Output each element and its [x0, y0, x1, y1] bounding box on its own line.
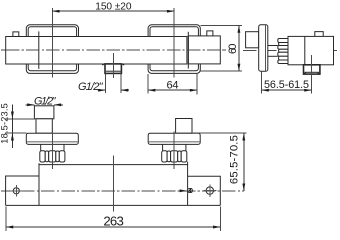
neck 2	[163, 144, 186, 150]
centerline axis 1	[51, 131, 53, 170]
outlet extension left	[104, 73, 106, 93]
bar plan bottom	[6, 204, 221, 206]
button 1 circle	[13, 188, 19, 194]
pipe 2	[176, 119, 192, 134]
esc2 ext left	[147, 74, 149, 94]
bar plan top	[39, 164, 188, 166]
knob	[246, 32, 259, 48]
escutcheon left outer	[26, 25, 78, 74]
centerline axis 2	[173, 132, 175, 170]
dim 60 : line	[238, 26, 240, 72]
centerline re-draw over bar	[6, 49, 225, 51]
svg-text:60: 60	[227, 44, 239, 55]
outlet chamfer right	[317, 73, 319, 74]
escutcheon left inner	[28, 27, 76, 71]
outlet chamfer tick left	[102, 64, 105, 65]
dim 60 : ext top	[201, 25, 243, 27]
outlet chamfer tick right	[122, 64, 125, 65]
svg-text:56.5-61.5: 56.5-61.5	[264, 79, 309, 91]
neck 1	[41, 144, 64, 150]
dim 56.5-61.5 ext right	[310, 80, 312, 94]
plate 1	[26, 133, 78, 144]
svg-text:18.5-23.5: 18.5-23.5	[0, 103, 9, 144]
wall plate	[259, 25, 268, 71]
outlet axis	[311, 55, 313, 80]
bar body	[6, 37, 187, 65]
outlet axis plan	[112, 156, 114, 212]
stem bottom	[268, 55, 278, 57]
svg-text:G1/2": G1/2"	[78, 81, 104, 93]
joint ring right	[187, 32, 189, 69]
svg-text:150 ±20: 150 ±20	[95, 1, 132, 12]
outlet nut side	[304, 65, 320, 74]
64 dim line	[148, 89, 197, 91]
dim 18.5-23.5 arrow top	[11, 111, 13, 119]
plate 2 inner line	[149, 141, 200, 143]
dim 263 ext left	[5, 207, 7, 232]
dim G1/2 plan arrow left	[26, 104, 35, 106]
dim 18.5-23.5 arrow bottom	[11, 133, 13, 141]
svg-text:263: 263	[103, 213, 124, 228]
body bump top	[315, 32, 323, 37]
dim 150±20 : extension/centerline left	[51, 8, 53, 78]
dim 18.5-23.5 line	[11, 105, 13, 149]
centerline	[243, 49, 339, 51]
wall plate inner line	[265, 25, 267, 71]
outlet nut	[105, 64, 121, 74]
outlet nut inner line	[106, 70, 121, 72]
button 2 cross	[204, 184, 217, 197]
dim 65.5-70.5 ext top	[192, 132, 247, 134]
main horizontal centerline	[1, 190, 244, 192]
button 1 cross	[11, 185, 23, 196]
cartridge ribs	[278, 39, 289, 64]
dim 263 ext right	[219, 207, 221, 232]
svg-text:30: 30	[188, 188, 193, 195]
plate 2	[148, 133, 200, 144]
plate 1 inner line	[27, 141, 78, 143]
escutcheon right inner	[150, 27, 198, 71]
bar plan left vertical	[38, 163, 40, 205]
dim 56.5-61.5 line	[262, 89, 312, 91]
right joint vertical	[187, 162, 189, 206]
svg-text:G1/2": G1/2"	[34, 96, 57, 108]
right end body	[188, 36, 220, 64]
G1/2 dim arrow right	[121, 89, 129, 91]
ring 2	[162, 151, 187, 162]
button 2 circle	[206, 187, 213, 194]
outlet extension right	[120, 73, 122, 93]
dim 18.5-23.5 ext top	[5, 118, 36, 120]
dim 60 : ext bottom	[201, 70, 243, 72]
right cap plan	[188, 176, 221, 205]
handle joint ring left	[38, 31, 40, 69]
svg-text:64: 64	[167, 79, 179, 91]
connector 1	[36, 119, 52, 133]
left handle plan	[6, 176, 39, 205]
outlet nut inner line	[304, 71, 319, 73]
dim 56.5-61.5 ext left	[261, 72, 263, 94]
body block	[288, 36, 334, 64]
dim 150±20 : extension/centerline right	[173, 8, 175, 78]
body division	[304, 36, 306, 64]
centerline horizontal of bar	[1, 49, 226, 51]
stem top	[268, 45, 278, 47]
button bump right	[207, 31, 213, 36]
G1/2 dim arrow left	[98, 89, 106, 91]
esc2 ext right	[196, 74, 198, 94]
svg-text:65.5-70.5: 65.5-70.5	[228, 135, 240, 184]
pipe 1	[34, 106, 54, 119]
dim 150±20 : line	[52, 10, 174, 12]
button bump left	[13, 32, 19, 37]
dim 18.5-23.5 ext bottom	[5, 132, 26, 134]
30 arrow	[182, 190, 187, 192]
outlet chamfer left	[304, 73, 306, 74]
outlet axis front	[112, 53, 114, 78]
ring 1	[40, 151, 65, 162]
dim G1/2 plan arrow right	[54, 104, 63, 106]
dim 263 line	[6, 226, 220, 228]
dim 65.5-70.5 line	[243, 133, 245, 191]
escutcheon right outer	[148, 25, 200, 74]
